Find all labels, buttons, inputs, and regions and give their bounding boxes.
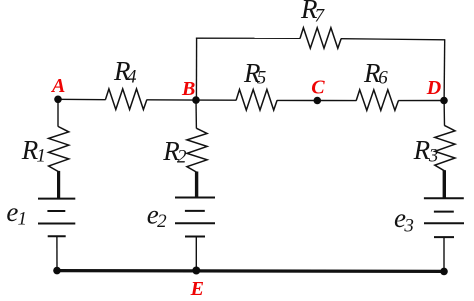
svg-text:D: D	[426, 77, 441, 99]
svg-text:3: 3	[428, 145, 439, 166]
wire node A down to R1	[57, 99, 59, 126]
wire top rail left segment	[196, 37, 300, 39]
label R7	[300, 0, 326, 27]
svg-text:7: 7	[315, 6, 326, 27]
svg-text:A: A	[50, 75, 65, 97]
thick lead R1 to battery e1	[57, 171, 60, 199]
svg-text:C: C	[311, 77, 325, 99]
wire node B up to top rail	[195, 38, 197, 101]
label R4	[113, 56, 137, 88]
node A junction dot	[54, 96, 62, 104]
resistor R6	[356, 90, 398, 111]
node label B	[181, 78, 195, 100]
wire node D down to R3	[443, 101, 445, 126]
wire R6 to D	[398, 100, 444, 102]
svg-text:R: R	[413, 135, 431, 165]
label e2	[147, 200, 167, 233]
thick lead R2 to battery e2	[195, 172, 198, 198]
label e1	[6, 197, 27, 230]
wire R4 to B	[147, 99, 196, 101]
wire R5 to C	[277, 99, 317, 101]
label R6	[363, 58, 388, 89]
wire bottom rail E	[57, 269, 444, 273]
wire node B down to R2	[195, 100, 197, 128]
wire battery e3 to bottom rail	[443, 237, 445, 271]
node B junction dot	[192, 96, 200, 104]
wire top rail right segment	[341, 39, 445, 40]
label R5	[243, 58, 266, 89]
thick lead R3 to battery e3	[443, 170, 446, 199]
battery e3 plates	[424, 198, 464, 237]
wire A to R4	[58, 98, 106, 100]
label R3	[413, 135, 439, 167]
svg-text:3: 3	[403, 216, 414, 237]
wire battery e2 to bottom rail	[195, 237, 197, 271]
label e3	[394, 203, 414, 237]
label R2	[162, 136, 187, 167]
node label C	[311, 77, 325, 99]
svg-text:6: 6	[378, 68, 388, 89]
node label E	[190, 278, 204, 300]
resistor R3	[435, 125, 455, 170]
node label A	[50, 75, 65, 97]
label R1	[21, 135, 46, 167]
resistor R7	[300, 28, 341, 49]
resistor R4	[105, 89, 146, 110]
svg-text:4: 4	[127, 67, 137, 88]
svg-text:5: 5	[257, 68, 267, 89]
battery e2 plates	[175, 198, 215, 237]
wire top rail down to node D	[443, 39, 446, 100]
node label D	[426, 77, 441, 99]
wire battery e1 to bottom rail	[56, 236, 58, 270]
wire B to R5	[196, 99, 236, 101]
resistor R1	[49, 127, 69, 172]
svg-text:1: 1	[36, 145, 46, 166]
svg-text:E: E	[190, 278, 204, 300]
svg-text:1: 1	[18, 209, 28, 230]
svg-text:2: 2	[177, 147, 187, 168]
node D junction dot	[440, 97, 448, 105]
resistor R2	[187, 128, 207, 172]
bottom-left junction dot	[53, 267, 61, 275]
svg-text:B: B	[181, 78, 195, 100]
svg-text:2: 2	[157, 211, 167, 232]
battery e1 plates	[38, 199, 75, 237]
node C junction dot	[314, 97, 322, 105]
wire C to R6	[317, 100, 356, 102]
bottom-right junction dot	[440, 268, 448, 276]
node E junction dot	[192, 267, 200, 275]
resistor R5	[236, 90, 277, 111]
